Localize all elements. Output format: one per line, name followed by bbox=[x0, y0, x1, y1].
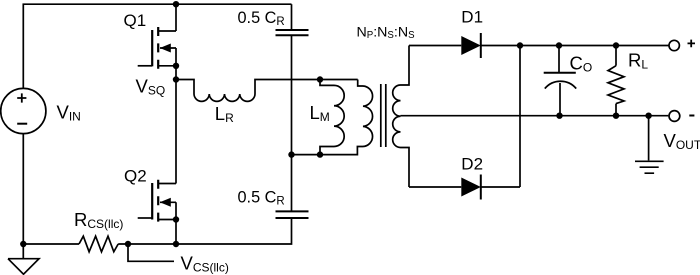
svg-text:Q1: Q1 bbox=[124, 11, 147, 30]
svg-text:D1: D1 bbox=[461, 7, 483, 26]
svg-text:VCS(llc): VCS(llc) bbox=[181, 253, 229, 275]
wire bottom rail left bbox=[23, 243, 79, 245]
svg-text:VSQ: VSQ bbox=[136, 75, 166, 97]
svg-text:LM: LM bbox=[310, 102, 330, 124]
svg-text:LR: LR bbox=[215, 103, 234, 125]
transformer primary winding bbox=[358, 80, 363, 87]
capacitor 0.5 CR top bbox=[291, 4, 293, 30]
svg-text:RL: RL bbox=[628, 50, 648, 72]
capacitor CO bbox=[556, 42, 562, 48]
wire Q1 source to VSQ bbox=[175, 66, 177, 80]
wire cap midpoint to primary bottom bbox=[292, 147, 364, 155]
ground (earth bars) bbox=[648, 116, 650, 161]
svg-text:VOUT: VOUT bbox=[664, 130, 700, 152]
node rectifier junction dot bbox=[517, 42, 523, 48]
node bottom-left junction dot bbox=[20, 241, 26, 247]
node VCS junction dot bbox=[125, 241, 131, 247]
terminal minus bbox=[669, 111, 680, 122]
svg-text:RCS(llc): RCS(llc) bbox=[74, 209, 123, 231]
wire center tap to minus rail bbox=[401, 115, 669, 117]
svg-text:CO: CO bbox=[570, 53, 593, 75]
svg-text:Q2: Q2 bbox=[124, 166, 147, 185]
voltage source VIN bbox=[1, 88, 46, 133]
svg-text:NP:NS:NS: NP:NS:NS bbox=[357, 24, 416, 41]
node primary top dot bbox=[317, 76, 323, 82]
wire bottom rail right bbox=[118, 218, 291, 244]
inductor LR bbox=[176, 80, 194, 95]
svg-text:D2: D2 bbox=[461, 155, 483, 174]
transistor Q1 bbox=[138, 65, 153, 67]
svg-text:0.5 CR: 0.5 CR bbox=[238, 188, 285, 207]
capacitor 0.5 CR bottom bbox=[291, 155, 293, 212]
wire top rail bbox=[23, 4, 291, 88]
ground (triangle) bbox=[8, 244, 39, 274]
wire VCS stub bbox=[128, 244, 174, 261]
node Q2 source rail dot bbox=[173, 241, 179, 247]
transistor Q2 bbox=[138, 217, 153, 219]
wire VSQ down to Q2 drain bbox=[175, 80, 177, 184]
diode D2 bbox=[409, 186, 461, 188]
wire D2 cathode riser bbox=[519, 46, 521, 188]
node top rail junction dot bbox=[173, 1, 179, 7]
resistor RCS(llc) bbox=[79, 236, 118, 252]
node cap midpoint dot bbox=[288, 151, 294, 157]
diode D1 bbox=[409, 45, 461, 47]
wire Q2 source to rail bbox=[175, 220, 177, 245]
transformer secondary winding bbox=[401, 46, 410, 86]
svg-text:VIN: VIN bbox=[57, 102, 81, 124]
node VSQ dot bbox=[173, 76, 179, 82]
terminal plus bbox=[669, 40, 679, 50]
transformer core bbox=[381, 84, 386, 147]
resistor RL bbox=[613, 42, 619, 48]
wire plus rail bbox=[481, 45, 669, 47]
wire left rail lower bbox=[22, 134, 24, 244]
svg-text:0.5 CR: 0.5 CR bbox=[238, 9, 285, 28]
node ground junction dot bbox=[645, 113, 651, 119]
node primary bottom dot bbox=[317, 151, 323, 157]
inductor LM bbox=[320, 80, 334, 86]
